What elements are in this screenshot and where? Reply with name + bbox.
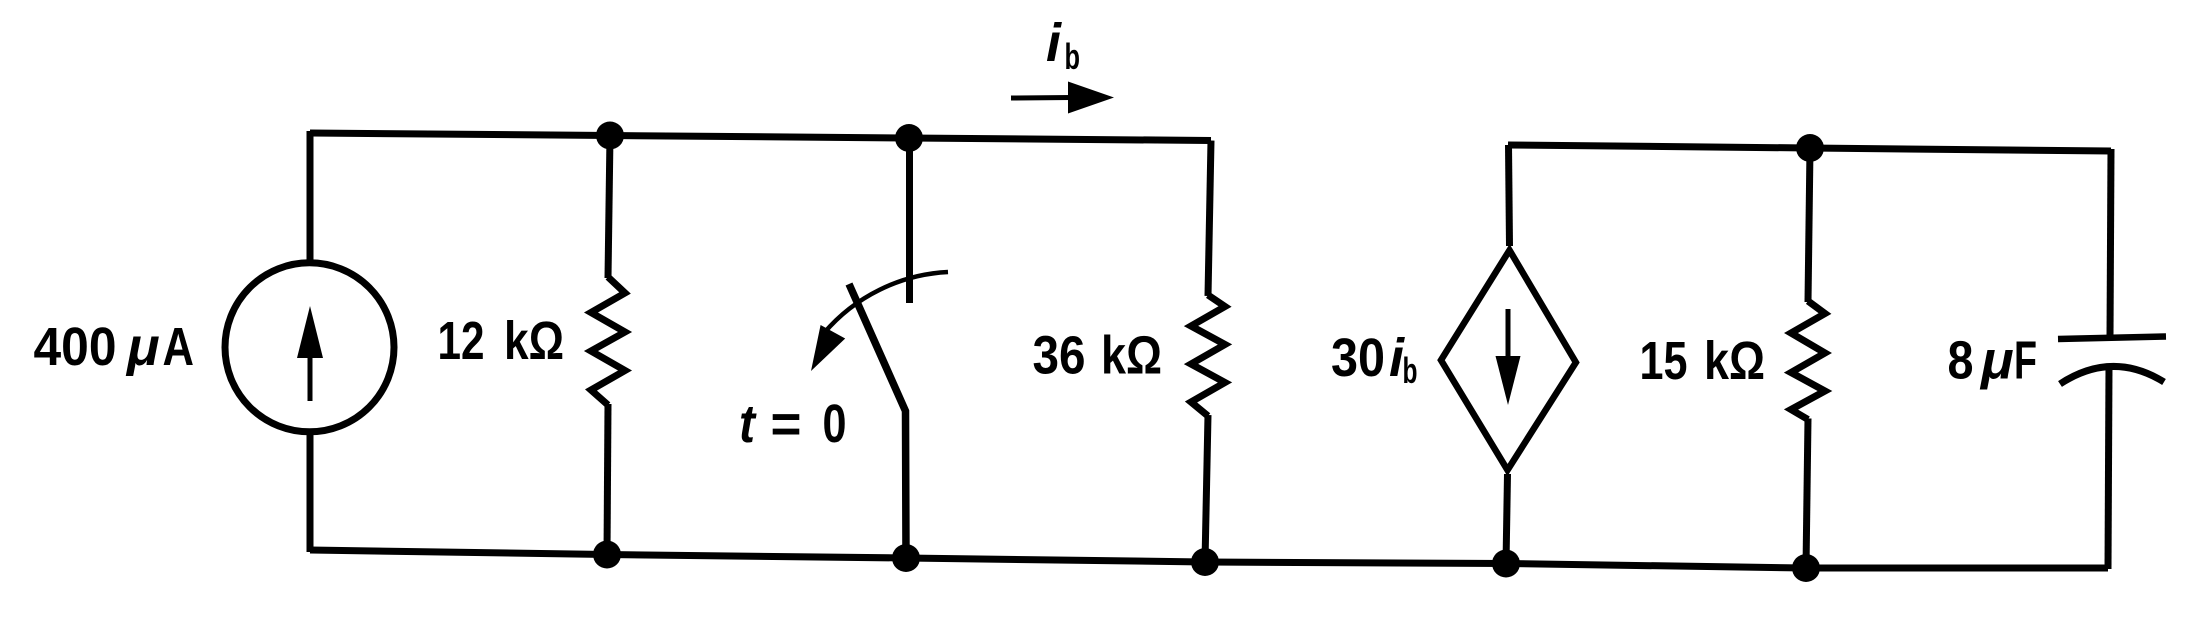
svg-text:8: 8 bbox=[1948, 331, 1974, 391]
svg-text:F: F bbox=[2014, 331, 2037, 391]
svg-text:15: 15 bbox=[1640, 331, 1688, 391]
svg-text:0: 0 bbox=[823, 394, 847, 454]
svg-text:A: A bbox=[163, 317, 195, 377]
svg-text:i: i bbox=[1046, 13, 1062, 73]
svg-text:36: 36 bbox=[1033, 326, 1086, 386]
svg-text:b: b bbox=[1403, 350, 1418, 391]
svg-text:12: 12 bbox=[438, 311, 485, 371]
svg-text:kΩ: kΩ bbox=[1101, 326, 1162, 386]
svg-text:kΩ: kΩ bbox=[504, 311, 564, 371]
svg-text:b: b bbox=[1065, 36, 1081, 77]
svg-text:=: = bbox=[771, 394, 802, 454]
svg-text:μ: μ bbox=[1979, 331, 2014, 391]
svg-text:400: 400 bbox=[34, 317, 117, 377]
svg-text:30: 30 bbox=[1331, 328, 1385, 388]
svg-text:kΩ: kΩ bbox=[1704, 331, 1765, 391]
svg-text:μ: μ bbox=[125, 317, 160, 377]
svg-text:t: t bbox=[739, 394, 757, 454]
